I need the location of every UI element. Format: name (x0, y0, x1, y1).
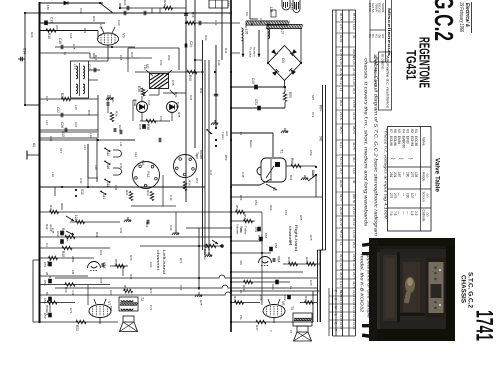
switch S16 (104, 160, 111, 165)
svg-text:14: 14 (339, 242, 343, 246)
svg-text:84,77: 84,77 (339, 49, 343, 57)
svg-text:C44: C44 (114, 185, 118, 191)
photo radiogram cabinet (362, 238, 455, 341)
svg-text:M: M (333, 306, 337, 309)
lamp assembly dark details (284, 2, 299, 10)
svg-text:C43: C43 (79, 178, 83, 184)
svg-text:C60: C60 (271, 284, 275, 290)
svg-text:V7: V7 (107, 301, 111, 305)
svg-text:10k: 10k (239, 228, 243, 233)
svg-text:R73: R73 (149, 288, 153, 294)
svg-text:40: 40 (352, 35, 356, 39)
svg-text:S15: S15 (311, 95, 315, 101)
svg-text:S17: S17 (59, 148, 63, 154)
svg-text:R29: R29 (163, 0, 167, 6)
svg-text:C24: C24 (189, 41, 193, 47)
svg-text:R18: R18 (191, 12, 195, 18)
svg-text:C50: C50 (309, 150, 313, 156)
svg-text:21,58: 21,58 (352, 100, 356, 108)
switch S1 mains (266, 184, 277, 190)
svg-text:V7: V7 (389, 129, 393, 133)
svg-text:C25: C25 (45, 96, 49, 102)
svg-text:31,16: 31,16 (352, 322, 356, 330)
svg-text:15k: 15k (239, 315, 243, 320)
svg-text:R40: R40 (188, 75, 192, 81)
svg-text:R28: R28 (95, 232, 99, 238)
svg-text:93,81: 93,81 (339, 180, 343, 188)
wire row 295 (40, 294, 91, 296)
svg-text:S: S (333, 298, 337, 300)
svg-text:C51: C51 (254, 99, 258, 105)
svg-text:R58: R58 (243, 214, 247, 220)
svg-text:C58: C58 (274, 243, 278, 249)
svg-text:R3A: R3A (141, 160, 145, 166)
wire bridge bottom (284, 81, 286, 88)
resistor R38 (146, 119, 156, 123)
wire row c26 (40, 129, 99, 131)
svg-text:R42: R42 (45, 224, 49, 230)
triode V6A (259, 257, 272, 264)
arrow to heaters 2 (258, 30, 260, 57)
capacitor C24b (107, 102, 109, 106)
switch S1b on-off (315, 166, 317, 168)
ferrite aerial coil wire (87, 144, 89, 178)
svg-text:C48: C48 (241, 172, 245, 178)
svg-text:L16: L16 (99, 24, 103, 29)
screen line tuner (204, 60, 206, 255)
wire left agc line (24, 13, 26, 105)
svg-text:R56: R56 (235, 205, 239, 211)
svg-text:L17: L17 (73, 64, 77, 69)
svg-text:180: 180 (46, 5, 50, 10)
resistor R47 (289, 262, 298, 266)
svg-text:31,18: 31,18 (352, 112, 356, 120)
resistor R44 (307, 262, 316, 266)
connector box top right small (271, 10, 276, 17)
svg-text:V4B: V4B (176, 102, 180, 108)
feedback line 278 (55, 275, 317, 278)
svg-text:L26: L26 (245, 29, 249, 35)
resistor R33 (150, 192, 154, 201)
bridge rectifier D1 (268, 46, 301, 81)
svg-text:C69: C69 (179, 285, 183, 291)
if transformer M2 ratio detector (150, 74, 169, 89)
svg-text:R20: R20 (30, 32, 34, 38)
capacitor on rail C32 (184, 14, 188, 16)
svg-text:C10: C10 (259, 18, 263, 24)
svg-text:R34: R34 (188, 180, 192, 186)
switch S14 (100, 190, 107, 195)
svg-text:R23: R23 (92, 16, 96, 22)
tuner unit box (128, 47, 179, 49)
svg-text:Below: Circuit diagram of S.T.: Below: Circuit diagram of S.T.C. G.C.2 b… (373, 56, 379, 236)
resistor R40 (187, 70, 197, 74)
vertical junction wire (97, 95, 99, 138)
feedback loop wire (32, 260, 34, 322)
svg-text:R21: R21 (83, 28, 87, 34)
feedback line 288 (55, 285, 317, 288)
capacitor C59 coupling (102, 263, 104, 267)
svg-text:20,9: 20,9 (339, 100, 343, 106)
capacitor C14 (18, 58, 25, 60)
wire mains feed bottom (231, 184, 260, 186)
capacitor C51 (257, 106, 261, 111)
coil L23 loop (113, 168, 122, 175)
svg-text:R61: R61 (289, 175, 293, 181)
svg-text:G.C.2: G.C.2 (429, 0, 459, 41)
svg-text:R57: R57 (195, 178, 199, 184)
svg-text:36,78: 36,78 (352, 281, 356, 289)
svg-text:S11: S11 (106, 182, 110, 188)
svg-text:36,78: 36,78 (352, 142, 356, 150)
svg-text:C14: C14 (23, 48, 27, 54)
svg-text:C56: C56 (264, 233, 268, 239)
svg-text:275: 275 (389, 193, 393, 199)
svg-text:C65: C65 (99, 278, 103, 284)
resistor R55 (283, 93, 287, 102)
laminated core bar 2 (266, 24, 303, 28)
svg-text:V6A: V6A (277, 256, 281, 263)
svg-text:L10: L10 (51, 172, 55, 177)
svg-text:C33: C33 (159, 60, 163, 66)
svg-text:Tape: Tape (195, 152, 199, 159)
svg-text:85 15: 85 15 (352, 13, 356, 21)
svg-text:S14: S14 (102, 194, 106, 200)
svg-text:R25: R25 (60, 93, 64, 99)
svg-text:A163: A163 (290, 3, 294, 10)
tone controls volume bass treble (236, 210, 245, 214)
svg-text:C27: C27 (74, 122, 78, 128)
svg-text:R36: R36 (115, 111, 119, 117)
wire bridge right arm (300, 28, 302, 63)
svg-text:35 12: 35 12 (352, 68, 356, 76)
svg-text:R36: R36 (137, 86, 141, 92)
wire balance riser (198, 228, 200, 290)
svg-text:T1: T1 (280, 149, 284, 153)
svg-text:30,7: 30,7 (352, 157, 356, 163)
rail v 222 short (221, 0, 223, 60)
capacitor C52a (60, 231, 64, 236)
svg-text:R76: R76 (309, 235, 313, 241)
svg-text:C40: C40 (217, 60, 221, 66)
resistor R34 (183, 182, 187, 191)
svg-text:C53: C53 (254, 227, 258, 233)
svg-text:L24: L24 (74, 215, 78, 221)
svg-text:TG431: TG431 (404, 50, 419, 80)
svg-text:93,81: 93,81 (339, 35, 343, 43)
rail v 195 (194, 0, 196, 148)
svg-text:20,79: 20,79 (339, 68, 343, 76)
svg-text:24,7: 24,7 (339, 168, 343, 174)
svg-text:R62: R62 (239, 195, 243, 201)
svg-text:L11: L11 (119, 142, 123, 147)
switch S12 (104, 147, 111, 152)
svg-text:20,9: 20,9 (352, 242, 356, 248)
output transformer T3 (293, 313, 312, 326)
resistor R54 (124, 289, 133, 293)
svg-text:C62: C62 (283, 295, 287, 301)
svg-text:93,15: 93,15 (339, 306, 343, 314)
svg-text:14,30: 14,30 (352, 77, 356, 85)
svg-text:R45: R45 (233, 296, 237, 302)
svg-text:R47: R47 (255, 325, 259, 331)
svg-text:in ohms.: in ohms. (381, 54, 385, 70)
capacitor C21 (89, 69, 101, 71)
svg-text:65 15: 65 15 (339, 13, 343, 21)
wire mains bottom row (231, 196, 323, 198)
svg-text:V6: V6 (281, 301, 285, 305)
wire v3 anode down (107, 50, 109, 61)
svg-text:31,18: 31,18 (352, 263, 356, 271)
wire v6 grid riser (261, 232, 263, 305)
svg-text:50: 50 (45, 292, 49, 296)
wire row 258 (40, 257, 91, 259)
dots S15 area (75, 189, 77, 191)
note alternative dc resistance (379, 52, 392, 110)
svg-text:28,73: 28,73 (352, 126, 356, 134)
laminated core bar 1 (246, 21, 289, 25)
svg-text:21,18: 21,18 (339, 112, 343, 120)
svg-text:21,58: 21,58 (352, 254, 356, 262)
svg-text:*These h.t. voltages at input: *These h.t. voltages at input tag 4,160V… (384, 128, 388, 220)
svg-text:200 50: 200 50 (352, 194, 356, 204)
svg-text:20,79: 20,79 (339, 218, 343, 226)
svg-text:R47: R47 (304, 296, 308, 302)
svg-text:Screen: Screen (422, 192, 426, 202)
svg-text:R70: R70 (129, 255, 133, 261)
svg-text:940: 940 (319, 136, 323, 142)
svg-text:24,20: 24,20 (352, 57, 356, 65)
svg-text:ECL86: ECL86 (389, 136, 393, 146)
svg-text:C30: C30 (117, 20, 121, 26)
svg-text:9 71: 9 71 (339, 24, 343, 30)
wire right rails (312, 291, 314, 322)
wire mains feed top (231, 132, 273, 134)
svg-text:93,15: 93,15 (339, 298, 343, 306)
rail v 202 (202, 40, 204, 250)
svg-text:F: F (333, 290, 337, 292)
svg-text:C35: C35 (171, 80, 175, 86)
svg-text:C53: C53 (43, 280, 47, 286)
svg-text:F1: F1 (239, 132, 243, 136)
coil L26 (242, 28, 244, 41)
svg-text:P.U.: P.U. (146, 171, 150, 178)
coil L24 tap (70, 221, 120, 223)
svg-text:C55: C55 (43, 298, 47, 304)
svg-text:heaters: heaters (253, 47, 257, 57)
capacitor C58b coupling (273, 258, 275, 262)
svg-text:20,9: 20,9 (339, 254, 343, 260)
arrow to heaters 1 (242, 38, 244, 57)
svg-text:16,8: 16,8 (352, 24, 356, 30)
transformer T1 (261, 158, 286, 182)
resistor R31 (129, 192, 133, 201)
wire rail bottom links (317, 250, 319, 322)
extra grounds (124, 217, 131, 222)
resistor R49 (40, 247, 111, 249)
svg-text:C54: C54 (66, 236, 70, 242)
svg-text:C52: C52 (56, 231, 60, 237)
svg-text:R63: R63 (269, 205, 273, 211)
capacitor C55 (48, 297, 52, 302)
svg-text:L21: L21 (83, 145, 87, 150)
capacitor C13 (44, 21, 48, 26)
chassis earth bus left (39, 2, 41, 322)
wire cathode row (40, 52, 91, 54)
switch contact S18 (205, 129, 213, 135)
svg-text:9,14: 9,14 (339, 281, 343, 287)
svg-text:C29: C29 (49, 136, 53, 142)
svg-text:C22: C22 (56, 107, 60, 113)
wire v7 grid (87, 285, 89, 306)
svg-text:C42: C42 (119, 228, 123, 234)
svg-text:S1: S1 (272, 187, 276, 191)
svg-text:To valve: To valve (249, 47, 253, 58)
svg-text:31,16: 31,16 (352, 290, 356, 298)
svg-text:51,73: 51,73 (339, 157, 343, 165)
bottom wire left (33, 321, 118, 323)
socket tape (174, 155, 197, 178)
svg-text:L13: L13 (45, 120, 49, 125)
svg-text:Appearance of one sample: Appearance of one sample (367, 251, 372, 319)
svg-text:R65: R65 (299, 215, 303, 221)
svg-text:R52: R52 (75, 325, 79, 331)
capacitor C62 (287, 295, 291, 300)
coil L22 loop (113, 150, 122, 157)
triode V7A (88, 262, 101, 269)
speaker left (123, 316, 134, 322)
svg-text:4.7k: 4.7k (71, 290, 75, 296)
pilot lamp assembly (282, 0, 290, 10)
svg-text:25: 25 (45, 272, 49, 276)
svg-text:T: T (333, 329, 337, 331)
resistor R52 (76, 320, 86, 324)
svg-text:C52: C52 (254, 200, 258, 206)
svg-text:7.6: 7.6 (389, 211, 393, 216)
svg-text:Balance: Balance (203, 249, 207, 260)
svg-text:L19: L19 (143, 65, 147, 70)
junction dots (38, 12, 40, 14)
wire long row 187 (40, 186, 206, 188)
svg-text:Valve: Valve (422, 137, 426, 146)
svg-text:Tuner: Tuner (221, 132, 225, 140)
svg-text:R44: R44 (305, 257, 309, 263)
capacitor C38 (142, 124, 146, 129)
svg-text:C32: C32 (214, 20, 218, 26)
svg-text:C49: C49 (251, 78, 255, 84)
svg-text:C54: C54 (284, 210, 288, 216)
diode V4A (137, 102, 148, 113)
svg-text:R47: R47 (287, 257, 291, 263)
svg-text:29,30: 29,30 (339, 207, 343, 215)
svg-text:C38: C38 (138, 124, 142, 130)
capacitor C54a (60, 239, 64, 244)
svg-text:Volume: Volume (236, 224, 240, 234)
svg-text:0.1: 0.1 (45, 243, 49, 247)
resistor R51 ww (40, 302, 76, 304)
coil L27 (268, 29, 270, 39)
svg-text:21,18: 21,18 (339, 263, 343, 271)
svg-text:C16: C16 (58, 38, 62, 44)
svg-text:R74: R74 (45, 310, 49, 316)
svg-text:C37: C37 (159, 116, 163, 122)
capacitor C31 (127, 6, 129, 11)
svg-text:C28: C28 (119, 55, 123, 61)
resistor R36 (141, 88, 145, 96)
svg-text:C15: C15 (72, 44, 76, 50)
svg-text:C36: C36 (147, 100, 151, 106)
wire top mid extra (120, 7, 186, 9)
svg-text:Anode: Anode (422, 172, 426, 181)
svg-text:R33: R33 (146, 190, 150, 196)
balance pot R50 (140, 245, 223, 247)
capacitor C16 (61, 45, 63, 50)
svg-text:C46: C46 (169, 195, 173, 201)
wire row 291 (231, 290, 320, 292)
capacitor C49 (254, 85, 258, 90)
wire row 272 (231, 271, 303, 273)
svg-text:C63: C63 (149, 262, 153, 268)
svg-text:14: 14 (339, 88, 343, 92)
svg-text:R27: R27 (130, 52, 134, 58)
svg-text:C18: C18 (69, 33, 73, 39)
svg-text:C19: C19 (79, 8, 83, 14)
pot R42 wiper (66, 216, 74, 221)
pentode V7 (89, 305, 111, 318)
diode V4B (167, 102, 178, 113)
svg-text:R31: R31 (125, 190, 129, 196)
svg-text:C47: C47 (209, 170, 213, 176)
svg-text:on/off: on/off (311, 170, 315, 177)
wire switch bank vertical (96, 138, 98, 182)
resistor R46 row282 (231, 281, 290, 283)
wire row c22 (40, 114, 99, 116)
svg-text:16,8: 16,8 (352, 168, 356, 174)
capacitor C24 (185, 44, 187, 48)
svg-text:C45: C45 (51, 228, 55, 234)
svg-text:93,15: 93,15 (339, 314, 343, 322)
svg-text:L15: L15 (74, 105, 78, 110)
svg-text:R55: R55 (288, 92, 292, 98)
capacitor C53 (48, 279, 52, 284)
bottom wire right (231, 321, 313, 323)
svg-text:14,30: 14,30 (352, 230, 356, 238)
svg-text:55 12: 55 12 (339, 230, 343, 238)
wire row 276 (40, 275, 89, 277)
svg-text:31,16: 31,16 (352, 306, 356, 314)
resistor R17 top (187, 21, 196, 25)
svg-text:S.T.C. G.C.2: S.T.C. G.C.2 (467, 272, 474, 308)
svg-text:R38: R38 (146, 124, 150, 130)
svg-text:93,15: 93,15 (339, 322, 343, 330)
svg-text:D1: D1 (281, 58, 286, 64)
svg-text:C66: C66 (289, 240, 293, 246)
svg-text:C71: C71 (69, 308, 73, 314)
svg-text:S12: S12 (106, 151, 110, 157)
wire mains right rail (322, 85, 324, 250)
svg-text:C34: C34 (189, 95, 193, 101)
svg-text:Treble: Treble (244, 226, 248, 235)
svg-text:R72: R72 (129, 274, 133, 280)
svg-text:Cathode: Cathode (422, 210, 426, 222)
svg-text:R26: R26 (87, 110, 91, 116)
svg-text:C13: C13 (50, 17, 54, 23)
svg-text:(V): (V) (426, 174, 430, 178)
svg-text:Right-hand: Right-hand (294, 225, 299, 251)
svg-text:28,73: 28,73 (352, 272, 356, 280)
svg-text:R59: R59 (224, 155, 228, 161)
resistor R36b vertical (110, 113, 114, 122)
